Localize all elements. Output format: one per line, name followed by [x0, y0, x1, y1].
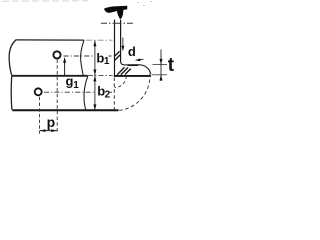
web hole centre cross — [101, 22, 134, 24]
svg-text:t: t — [168, 55, 175, 76]
folded leg dashed face — [113, 78, 115, 111]
web left face — [114, 20, 116, 77]
svg-text:p: p — [47, 114, 56, 130]
p dimension line — [40, 129, 58, 132]
bottom edge of leg 2 (also b2 extension) — [12, 109, 118, 111]
H1 centre line — [64, 55, 95, 57]
flange top edge — [125, 64, 140, 66]
svg-text:1: 1 — [104, 56, 110, 67]
d leader with left arrow — [135, 59, 144, 62]
svg-text:d: d — [128, 44, 136, 59]
label g1 — [66, 73, 80, 91]
top plate (leg 1 face view) outline — [9, 40, 84, 76]
hole H1 (upper leg) — [53, 51, 60, 58]
b1 top extension line — [86, 39, 113, 41]
svg-text:1: 1 — [73, 80, 79, 91]
toe curve — [140, 65, 151, 74]
inner swing arc — [115, 76, 127, 88]
scan streak top edge — [2, 0, 88, 2]
hole H2 (lower leg) — [35, 88, 42, 95]
g1 dimension line with arrow — [63, 57, 66, 75]
svg-text:2: 2 — [105, 90, 111, 101]
d extension line with down arrow — [122, 38, 125, 52]
label b1 — [96, 50, 110, 67]
t dimension line with arrows — [160, 50, 163, 82]
H2 centre line — [44, 91, 96, 93]
label b2 — [97, 84, 110, 101]
H1 gauge drop line — [56, 60, 58, 134]
fold line (heel) between the two legs — [12, 75, 88, 77]
H2 gauge drop line — [39, 97, 41, 134]
web right face — [120, 20, 122, 62]
root fillet — [121, 62, 125, 65]
rail head blob (solid black section) — [104, 6, 127, 20]
bottom plate (leg 2 face view) outline — [11, 76, 88, 110]
flange top dark segment — [128, 64, 139, 66]
b dimension line — [93, 40, 96, 110]
section bottom edge — [114, 75, 151, 77]
b1/b2 middle extension line — [88, 74, 113, 76]
section hatching — [115, 51, 131, 75]
outer swing arc — [115, 73, 150, 111]
t extension lines — [153, 64, 168, 66]
